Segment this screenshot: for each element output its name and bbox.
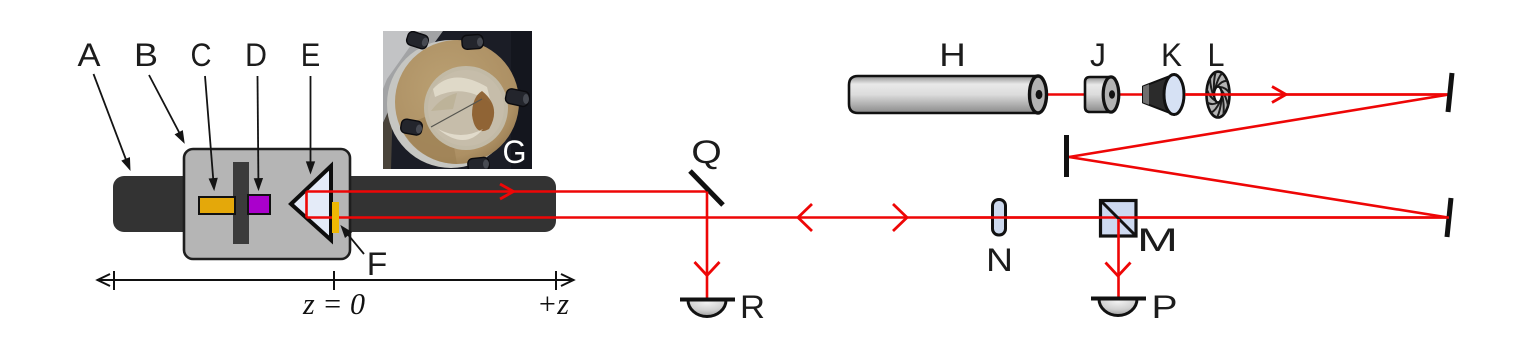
beam: top-right mirror down-left to middle mirror: [1069, 95, 1449, 158]
detector P: [1091, 299, 1146, 316]
svg-text:+z: +z: [537, 286, 569, 321]
svg-text:L: L: [1208, 37, 1225, 73]
tube A (dark rod): [113, 176, 556, 232]
beam arrow right before top-right mirror: [1272, 87, 1286, 103]
beam arrow left on bottom line: [798, 204, 812, 231]
svg-text:R: R: [740, 289, 765, 325]
beamsplitter M diagonal: [1101, 201, 1136, 236]
beam arrow down to P: [1106, 263, 1131, 277]
beamsplitter cube M: [1101, 201, 1137, 237]
component C (yellow rectangle): [199, 197, 235, 214]
svg-text:C: C: [191, 37, 212, 73]
beam: top line prism to mirror Q: [307, 190, 708, 193]
laser H aperture dot: [1036, 90, 1043, 99]
leader arrow F: [342, 227, 364, 254]
svg-text:D: D: [245, 37, 267, 73]
svg-text:H: H: [939, 37, 966, 73]
svg-text:Q: Q: [691, 134, 722, 170]
detector R: [680, 300, 735, 317]
svg-text:M: M: [1137, 222, 1178, 258]
beam: bottom line prism to mirror at far right: [307, 216, 1450, 219]
svg-text:G: G: [503, 134, 527, 170]
isolator J end cap: [1103, 77, 1119, 112]
svg-text:F: F: [367, 246, 388, 282]
detector window F (gold bar on prism face): [332, 202, 339, 233]
beam: M cube down to detector P: [1117, 219, 1120, 298]
chopper wheel L: [1206, 72, 1229, 118]
svg-text:P: P: [1152, 289, 1178, 325]
mirror Q (beam pick-off): [690, 171, 723, 205]
beam arrow down to R: [695, 262, 720, 276]
lens K face: [1164, 75, 1184, 115]
beam arrow right on bottom line: [893, 204, 907, 231]
beam: laser line H to top-right mirror: [1039, 93, 1449, 96]
beam: middle mirror down-right to bottom-right mirror: [1069, 157, 1448, 218]
svg-text:z = 0: z = 0: [302, 286, 365, 321]
mount slab inside housing: [233, 162, 249, 244]
lens K cone left face highlight: [1143, 84, 1149, 105]
mirror middle: [1064, 135, 1069, 177]
beam: Q down to detector R: [706, 192, 709, 300]
svg-text:N: N: [986, 242, 1013, 278]
svg-text:E: E: [301, 37, 321, 73]
svg-text:K: K: [1161, 37, 1182, 73]
waveplate N: [993, 200, 1006, 236]
laser H end cap: [1030, 76, 1047, 113]
svg-text:A: A: [78, 37, 102, 73]
leader arrow C: [205, 76, 217, 189]
photograph inset G: [383, 30, 532, 173]
beam overlay across N and M: [960, 216, 1449, 219]
mirror bottom-right: [1447, 198, 1451, 237]
component D (purple rectangle): [248, 195, 270, 214]
prism E: [291, 166, 331, 240]
beam segment over chopper: [1185, 93, 1449, 96]
svg-text:B: B: [134, 37, 158, 73]
laser H body: [849, 76, 1038, 113]
leader arrow B: [149, 75, 184, 142]
isolator J body: [1085, 77, 1111, 112]
leader arrow A: [94, 74, 130, 169]
lens K cone: [1143, 75, 1174, 115]
isolator J aperture dot: [1109, 90, 1115, 98]
leader arrow E: [307, 76, 314, 172]
beam arrow right on top line: [500, 184, 514, 199]
beam segment inside prism (left vertical): [305, 192, 308, 218]
leader arrow D: [255, 76, 262, 189]
svg-text:J: J: [1090, 37, 1106, 73]
mirror top-right: [1448, 73, 1452, 112]
z-axis dimension line: [97, 271, 574, 290]
housing B (gray box): [184, 149, 350, 259]
